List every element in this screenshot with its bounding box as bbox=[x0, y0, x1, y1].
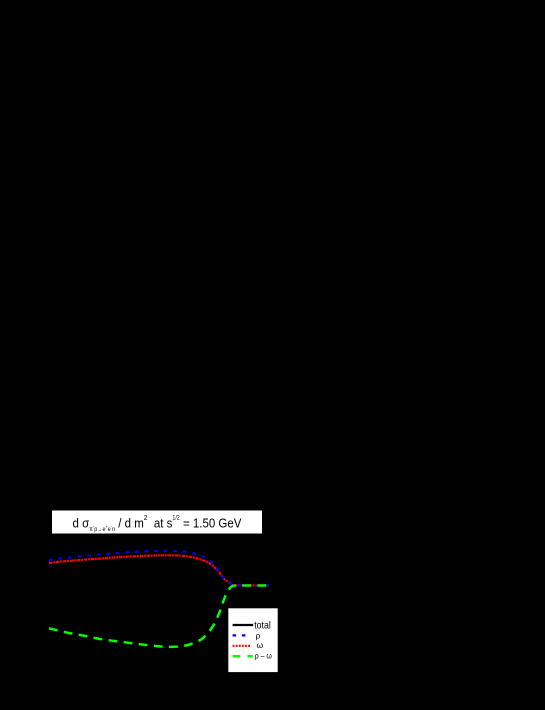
svg-text:ρ: ρ bbox=[256, 630, 261, 640]
svg-text:ω: ω bbox=[257, 640, 264, 650]
svg-text:ρ – ω: ρ – ω bbox=[255, 651, 272, 661]
